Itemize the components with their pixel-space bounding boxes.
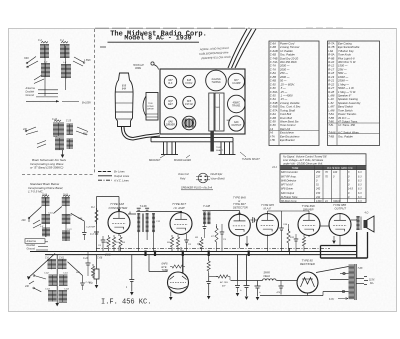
svg-text:237: 237 [315,175,321,178]
svg-text:TUNING SHAFT: TUNING SHAFT [242,158,260,161]
svg-text:6F6 Driver: 6F6 Driver [281,187,293,191]
svg-text:C-1: C-1 [60,39,65,42]
svg-text:C-57A: C-57A [270,108,278,112]
svg-text:100: 100 [333,171,338,174]
band switch S1 contacts left [24,57,38,68]
wire: coil common bus [45,46,66,96]
tube V3 type 6Q7 detector [229,214,251,236]
resistor R-23 bleeder [206,256,211,299]
capacitor C-5 under V1 [98,236,105,252]
parts list table (right) [328,41,380,146]
svg-text:4 Ω: 4 Ω [365,212,369,215]
svg-text:C-8A: C-8A [270,71,276,75]
voltage measurement notes box [280,154,366,166]
chassis mounting rail and legs [151,138,236,155]
svg-text:7-68: 7-68 [358,267,363,270]
svg-text:L-19: L-19 [328,97,334,101]
coil L6 [54,136,64,150]
svg-text:6A6 Output: 6A6 Output [281,191,294,195]
wire: V5 to V6 coupling [320,225,329,227]
svg-text:Eye Bracket: Eye Bracket [280,138,295,142]
switch S4 contacts [22,127,38,135]
chassis tube socket 6K7 [164,75,176,87]
labels: speaker plug wires [178,173,225,181]
svg-text:240: 240 [24,285,30,288]
chassis IF transformer can [228,95,246,113]
svg-text:Wave Band Sw.: Wave Band Sw. [280,120,299,124]
svg-text:I-3: I-3 [270,127,274,131]
svg-text:44.2: 44.2 [272,165,278,169]
junction (solder blob) [154,251,156,256]
svg-text:C-267MF: C-267MF [86,227,96,229]
wire: A.V.C. line (dash-dot) [96,247,330,249]
switch wiper arm with arrow (wave band) [27,254,55,280]
svg-text:C-6A: C-6A [270,112,276,116]
svg-text:C-61: C-61 [63,195,69,197]
RF coil L11 (3 stacked pairs) [58,257,70,302]
svg-text:R-28: R-28 [328,90,334,94]
svg-text:Ground: Ground [26,94,35,97]
label: eye tube [162,263,169,273]
oscillator coil L4 [61,61,71,79]
ground arrow mid [235,255,240,297]
oscillator coil L5 (lower) [52,118,64,136]
svg-text:A.C.Switch Wires: A.C.Switch Wires [337,131,359,135]
svg-text:6.3: 6.3 [358,188,362,191]
svg-text:R-7A: R-7A [328,41,334,45]
wire: output stage return (thick box) [321,232,368,258]
junction (solder blob) [144,251,146,256]
svg-text:C-7A: C-7A [270,64,276,68]
wire to ground with arrow [61,150,65,158]
svg-text:1 Meg — ½ W.: 1 Meg — ½ W. [338,90,356,94]
legend: Output lines [98,174,130,178]
svg-text:A.V.C. Lines: A.V.C. Lines [113,178,129,182]
svg-text:R-19: R-19 [328,75,334,79]
margin scribble [272,165,278,169]
svg-text:Antenna: Antenna [26,240,37,243]
svg-text:25M —: 25M — [337,67,347,71]
svg-text:OUTPUT: OUTPUT [335,206,347,210]
svg-text:C-62: C-62 [44,273,50,275]
svg-text:.15 —: .15 — [280,97,287,101]
oscillator coil L2 with trimmer C-1 (E-band brain) [60,39,70,58]
svg-text:.25 — 600V.: .25 — 600V. [280,82,295,86]
tube V8 type 80 rectifier [297,272,318,293]
svg-text:Doublet: Doublet [27,244,36,247]
svg-text:250 —: 250 — [279,71,288,75]
svg-text:I.F. AMP: I.F. AMP [174,206,185,210]
svg-text:under Volt - 25,000 Ohms per V: under Volt - 25,000 Ohms per Volt. [283,162,323,166]
svg-text:Eye Casing: Eye Casing [338,41,352,45]
label: TYPE 6A6 DRIVER [302,204,316,211]
caption: Standard Brain Below [28,182,63,194]
svg-text:C-58: C-58 [270,120,276,124]
electrolytic can tube (left of chassis) [115,73,133,127]
svg-text:Field: Field [180,178,186,181]
band switch S7 wipers [21,207,62,229]
svg-text:L-52: L-52 [328,101,334,105]
svg-text:240: 240 [78,217,83,220]
chassis drive bracket left [143,93,158,121]
resistor R-2 under V1 [104,235,110,252]
svg-text:6.3: 6.3 [358,171,362,174]
svg-text:250M —: 250M — [337,79,348,83]
svg-text:C-64: C-64 [64,288,70,291]
svg-text:C-54B: C-54B [270,101,278,105]
switch S6 contacts [37,141,46,148]
capacitor C-72 [277,281,284,295]
oscillator coil L10 (3 stacked pairs) [44,257,57,301]
svg-text:+: + [259,290,261,294]
svg-text:Power Transfor.: Power Transfor. [338,112,357,116]
svg-text:DRIVE: DRIVE [147,109,154,111]
svg-text:BOARD LEVER: BOARD LEVER [174,159,191,162]
svg-text:Eye Escutcheon: Eye Escutcheon [280,134,300,138]
svg-text:1.7-5.5 MC.: 1.7-5.5 MC. [28,190,44,194]
svg-text:CONVERTER: CONVERTER [109,206,129,210]
svg-text:200: 200 [104,253,111,257]
svg-text:50 —: 50 — [280,79,287,83]
label: TYPE 6F5 MAF [261,203,274,210]
node: Ground (std brain) [27,247,49,250]
wire: V1 cathode to bus [118,234,120,237]
svg-text:C-50: C-50 [270,93,276,97]
transformer taps with dots [340,272,349,292]
svg-text:C-6A: C-6A [270,41,276,45]
svg-text:R-21: R-21 [328,79,334,83]
electrolytic C-62 far left [94,255,103,289]
svg-text:C-6AB: C-6AB [270,49,278,53]
svg-text:CONV.: CONV. [185,82,193,85]
aerial lead wires from chassis [228,29,256,68]
svg-text:C-59: C-59 [270,123,276,127]
svg-text:T-8B: T-8B [328,116,334,120]
svg-text:6.3: 6.3 [358,192,362,195]
svg-text:1300: 1300 [316,200,322,203]
chassis tube socket 6K7 IF [228,73,244,89]
svg-text:or “E” Band.(155-356KC): or “E” Band.(155-356KC) [30,166,63,170]
speaker plug P1 pinout [196,173,210,183]
caption: Brain Schematic for E band [30,158,67,170]
svg-text:DET.: DET. [168,103,174,106]
svg-text:100M —: 100M — [338,75,348,79]
svg-text:B+ Lines: B+ Lines [114,170,125,174]
svg-text:39 Ω C —: 39 Ω C — [338,116,350,120]
AC line plug 115V [356,277,375,286]
resistor R-6 under V2 [176,235,179,252]
tube V7 eye tube [168,272,189,293]
svg-text:T-8A: T-8A [328,112,334,116]
svg-text:COND: COND [147,106,154,108]
svg-text:I.F. 456 KC.: I.F. 456 KC. [101,298,151,306]
ground arrow under V6 [332,236,336,244]
chassis tube shield (hatched) [182,116,196,130]
ground arrow under V3 [245,236,249,247]
svg-text:I.F. Padder: I.F. Padder [280,49,293,53]
switch S8 contacts [24,275,46,292]
svg-text:5MC: 5MC [83,134,88,136]
svg-text:L-M8: L-M8 [328,108,335,112]
legend: B+ lines [98,170,125,174]
note: aerial lead wires labels [199,46,231,61]
svg-text:No Signal. Volume Control Turn: No Signal. Volume Control Turned Off. [283,154,327,158]
svg-text:I.F.AMP: I.F.AMP [232,82,241,85]
svg-text:R-0A: R-0A [328,53,334,57]
oscillator coil L9 (std brain, 3 sections) [62,195,73,242]
svg-text:50M —: 50M — [338,71,347,75]
chassis outline (top view) [160,69,245,134]
svg-text:.25 —: .25 — [280,90,288,94]
volume control R-8 [195,237,203,251]
svg-text:14.5: 14.5 [348,188,353,191]
svg-text:7-Button Key: 7-Button Key [338,49,354,53]
chassis tube socket 6Q7 [164,96,176,108]
wire: rectifier filament to transformer [260,267,349,296]
svg-text:Pilot Light 6-8: Pilot Light 6-8 [338,56,355,60]
label: I.F. 456 KC. [101,298,151,306]
parts list table (left) [269,41,319,146]
svg-text:Power Cord: Power Cord [280,41,295,45]
svg-text:250: 250 [315,171,321,174]
switch wiper to C-267 capacitor [71,213,96,240]
label: SPEAKER PLUG No 5x4 [181,186,213,190]
svg-text:C-66: C-66 [97,257,103,260]
svg-text:RECTIFIER: RECTIFIER [300,262,315,266]
svg-text:Antenna: Antenna [25,87,36,90]
svg-text:Speaker Casting: Speaker Casting [338,97,358,101]
output transformer / voice coil [351,212,368,231]
label 6.3V filament [329,298,348,302]
tube V1 type 6A8 converter [108,212,130,234]
resistor R-5 under V2 [167,235,174,252]
chassis tube socket 6A8 [183,75,195,87]
svg-text:6.3: 6.3 [358,200,362,203]
svg-text:C-74A: C-74A [270,60,278,64]
svg-text:I-6A: I-6A [328,49,333,53]
svg-text:Speaker Assembly: Speaker Assembly [338,101,361,105]
title: The Midwest Radio Corp. Model 8 AC - 1939 [100,30,207,47]
label 7-68 [358,267,363,270]
svg-text:47 Output Trans.: 47 Output Trans. [338,120,358,124]
svg-text:Voice+Shield: Voice+Shield [211,178,226,181]
svg-text:64A: 64A [122,88,127,91]
svg-text:300 Ohm ½ W.: 300 Ohm ½ W. [338,60,356,64]
svg-text:C-50A: C-50A [270,90,278,94]
wire/cap C-24 right of V4 [268,211,288,252]
svg-text:C-160: C-160 [86,282,93,284]
junction (solder blob) [182,251,184,256]
svg-text:6F7 M.A.F.: 6F7 M.A.F. [281,183,294,187]
tuner shaft [210,131,223,152]
capacitor C-201 link to main [83,252,95,285]
label: TYPE 6K7 IF [172,202,186,210]
ground arrow under V7 [169,292,173,301]
svg-text:FIELD: FIELD [264,276,271,278]
svg-text:240: 240 [21,219,27,222]
svg-text:OUTPUT: OUTPUT [231,124,241,127]
svg-text:.1 — 400V.: .1 — 400V. [280,93,293,97]
resistor R-1 (antenna) [91,207,98,224]
resistor R-11 under V5 [302,235,305,252]
electrolytic C-70 [240,255,250,300]
svg-text:C-56B: C-56B [270,105,278,109]
svg-text:R-7B: R-7B [328,45,334,49]
capacitor C-26 [282,211,310,252]
svg-text:Ground: Ground [27,247,36,250]
antenna coil L1 with trimmer C-2 (E-band brain) [38,39,49,58]
svg-text:SPEAKER PLUG—No.5×4: SPEAKER PLUG—No.5×4 [181,186,213,190]
wire: bus to eye tube [149,255,183,273]
svg-text:I-7B: I-7B [270,138,275,142]
svg-text:Escutcheon: Escutcheon [280,131,295,135]
svg-text:R-12: R-12 [328,64,334,68]
svg-text:C-6B: C-6B [270,45,276,49]
svg-text:Drum Bolt: Drum Bolt [280,116,292,120]
svg-text:T-8B: T-8B [328,134,334,138]
svg-text:Line Voltage—117 Volts, All Va: Line Voltage—117 Volts, All Values [283,158,324,162]
tube V2 type 6K7 IF amp [170,213,192,235]
svg-text:Cord Bolt: Cord Bolt [280,112,291,116]
svg-text:R-10: R-10 [328,60,334,64]
junction (solder blob) [248,251,250,256]
svg-text:80 Rect.Conv: 80 Rect.Conv [281,199,297,203]
svg-text:SHAFT: SHAFT [216,149,224,152]
svg-text:HOOK-UP: HOOK-UP [133,65,144,67]
svg-text:Dial Unit: Dial Unit [280,127,290,131]
wire: center tap line [55,255,59,306]
IF transformer T-146 [136,204,150,252]
svg-text:1ST.AF: 1ST.AF [185,103,193,106]
svg-text:Band Switch: Band Switch [338,105,353,109]
tube drops to bus [119,235,340,252]
legend: A.V.C. lines [98,178,129,182]
svg-text:C-6B: C-6B [270,53,276,57]
power transformer T-8A winding [349,264,357,300]
chassis dial assembly [209,93,231,131]
svg-text:T-8L: T-8L [328,123,334,127]
RF coil L3 [41,62,50,77]
grid cap wire tube V1 [118,197,120,212]
svg-text:6.3: 6.3 [358,179,362,182]
svg-text:DIAL: DIAL [215,106,221,109]
switch wiper to C-160 [68,262,93,290]
tube V4 type 6F5 [257,214,279,236]
label: TYPE 6A8 CONVERTER [109,202,129,210]
svg-text:R-17: R-17 [328,67,334,71]
svg-text:C-7A: C-7A [270,67,276,71]
svg-text:C-63: C-63 [45,289,51,291]
capacitor C-8 under V2 [184,234,191,252]
svg-text:C-8B: C-8B [270,79,276,83]
padder capacitor C-25 [66,121,73,135]
wire: output bus line (lower) [45,254,357,256]
coupling capacitor C-11 [250,217,257,223]
svg-text:C-50: C-50 [270,86,276,90]
svg-text:C-11: C-11 [68,215,73,217]
svg-text:I-7A: I-7A [270,134,275,138]
svg-text:Eye Socket/Cable: Eye Socket/Cable [338,45,360,49]
wire: AVC to bus jog [289,248,291,254]
svg-text:Output Lines: Output Lines [114,174,130,178]
resistor R-4 under V1 [119,235,126,252]
speaker field coil [231,273,298,281]
resistor R-24 branch [209,275,230,288]
label TYPE 80 RECTIFIER [300,259,315,267]
svg-text:6H6 Detector: 6H6 Detector [281,178,296,182]
capacitor C-3 [90,232,99,236]
wire: T-146 secondary to V2 grid [151,211,183,213]
svg-text:1.5MC: 1.5MC [84,60,91,62]
dial drive cable (curve) [121,127,160,141]
svg-text:Tuning Shaft: Tuning Shaft [280,108,295,112]
svg-text:C-61: C-61 [63,273,69,275]
chassis tube socket 6F5 [183,96,195,108]
resistor R-20 (eye tube grid) [170,265,185,268]
coil L7 [67,139,74,149]
node: Antenna terminal strip (std brain) [25,239,48,244]
wire: brain output line with arrow [26,100,91,104]
svg-text:P-8B: P-8B [328,56,334,60]
svg-text:R.F.: R.F. [168,82,173,85]
svg-text:6.3: 6.3 [358,175,362,178]
wire: T-148 to V3 grid [211,211,241,215]
svg-text:R-22: R-22 [328,82,334,86]
svg-text:OSC: OSC [24,58,29,60]
svg-text:C-61: C-61 [48,213,54,215]
tube V5 type 6A6 driver [298,214,320,236]
svg-text:Doublet: Doublet [26,91,35,94]
tube V6 type 6B5 output [329,214,351,236]
svg-text:DRIVER: DRIVER [166,123,175,126]
svg-text:500M — 1 W.: 500M — 1 W. [338,86,355,90]
svg-text:242: 242 [315,188,321,191]
svg-text:SPKR: SPKR [264,273,271,275]
antenna coil L8 (std brain, 3 sections) [40,195,54,238]
svg-text:C-74B: C-74B [270,56,278,60]
svg-text:Tone Switch: Tone Switch [338,108,353,112]
node: Doublet terminal [26,91,59,94]
svg-text:C-6B: C-6B [270,116,276,120]
svg-text:TUN: TUN [148,103,153,105]
svg-text:DETECTOR: DETECTOR [233,205,248,209]
svg-text:Tone Knob: Tone Knob [338,53,351,57]
svg-text:Speaker 8″: Speaker 8″ [338,93,352,97]
svg-text:Model 8 AC - 1939: Model 8 AC - 1939 [124,35,191,42]
node: Antenna terminal [25,87,59,90]
svg-text:60~: 60~ [370,282,375,285]
svg-text:2-Gang Variable: 2-Gang Variable [279,101,300,105]
IF transformer T-148 [203,204,211,238]
junction (solder blob) [208,251,210,256]
svg-text:6K7 RF Amp.: 6K7 RF Amp. [281,174,297,178]
label: TYPE 6B5 OUTPUT [333,203,347,210]
svg-text:+: + [240,288,242,292]
labels under chassis [149,152,260,162]
wire: V1 plate to T-146 [128,212,136,215]
svg-text:L-M8: L-M8 [328,93,335,97]
svg-text:TRANS.: TRANS. [232,104,241,107]
svg-text:C-66: C-66 [42,195,48,197]
svg-text:C-24: C-24 [52,118,58,121]
svg-text:Osc. Cont. 6 Sec: Osc. Cont. 6 Sec [280,105,301,109]
svg-text:TUNING: TUNING [211,81,220,84]
IF trimmer C-12 [152,214,161,252]
chassis gang condenser [206,70,227,91]
svg-text:B+105V: B+105V [82,102,91,105]
svg-text:Tone Control: Tone Control [280,123,296,127]
svg-text:C-50: C-50 [270,82,276,86]
